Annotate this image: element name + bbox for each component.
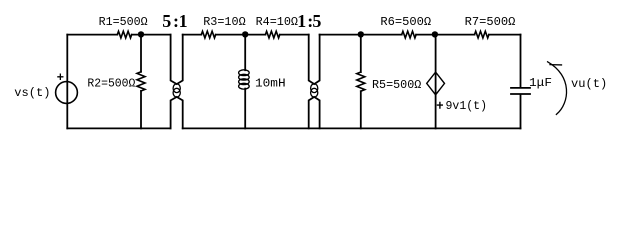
svg-text:5:1: 5:1 bbox=[162, 11, 187, 31]
svg-text:1:5: 1:5 bbox=[297, 11, 321, 31]
svg-text:R4=10Ω: R4=10Ω bbox=[256, 15, 298, 29]
svg-text:R5=500Ω: R5=500Ω bbox=[372, 78, 421, 92]
svg-text:R3=10Ω: R3=10Ω bbox=[203, 15, 246, 29]
svg-text:vs(t): vs(t) bbox=[14, 86, 50, 100]
svg-text:R7=500Ω: R7=500Ω bbox=[465, 15, 516, 29]
svg-text:vu(t): vu(t) bbox=[571, 77, 607, 91]
svg-text:R6=500Ω: R6=500Ω bbox=[380, 15, 431, 29]
svg-text:R2=500Ω: R2=500Ω bbox=[87, 77, 135, 91]
svg-text:10mH: 10mH bbox=[255, 77, 286, 91]
svg-text:1μF: 1μF bbox=[529, 76, 552, 90]
svg-text:R1=500Ω: R1=500Ω bbox=[99, 15, 148, 29]
svg-text:9v1(t): 9v1(t) bbox=[446, 99, 488, 113]
